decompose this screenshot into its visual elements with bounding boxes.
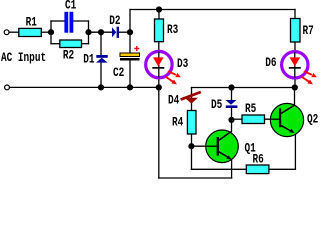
wire R4 bottom to corner [191, 134, 193, 169]
svg-text:R7: R7 [303, 25, 314, 39]
wire node A to R2 left [51, 43, 60, 45]
wire node B to D2 anode [89, 31, 113, 33]
terminal bottom [5, 85, 10, 90]
resistor R4 [187, 111, 196, 135]
wire node A vertical branch [50, 21, 52, 44]
wire R5 to Q2 base [265, 118, 279, 120]
wire corner to R6 left [192, 168, 247, 170]
node B junction [85, 29, 91, 35]
LED D3 [146, 51, 181, 84]
svg-text:R5: R5 [245, 103, 257, 117]
node A junction [48, 29, 54, 35]
transistor Q1 [205, 130, 238, 163]
C2 bottom junction [127, 84, 133, 90]
D1 top junction [98, 29, 104, 35]
wire left column down [158, 87, 160, 178]
diode D1 [96, 55, 108, 63]
svg-text:C1: C1 [65, 0, 77, 13]
node D junction [228, 117, 234, 123]
resistor R6 [246, 165, 269, 174]
wire node A to C1 left [51, 20, 65, 22]
terminal top [4, 30, 9, 35]
wire D4 branch lead [191, 88, 193, 111]
svg-text:D6: D6 [265, 57, 277, 71]
diode D2 [112, 27, 119, 38]
wire top rail [130, 9, 295, 11]
wire node B vertical branch [88, 21, 90, 44]
wire R6 right to Q2 emitter column [269, 168, 296, 170]
svg-text:R6: R6 [253, 153, 265, 167]
wire D2 cathode to node C [119, 31, 130, 33]
wire R2 right to node B [82, 43, 89, 45]
resistor R1 [19, 28, 42, 36]
wire node D to R5 [232, 118, 243, 120]
C2 plus sign [134, 46, 139, 51]
svg-text:D4: D4 [168, 95, 180, 109]
svg-text:AC Input: AC Input [1, 52, 46, 66]
svg-text:Q2: Q2 [307, 113, 319, 127]
resistor R5 [242, 115, 265, 124]
wire R3 to D3 to bottom rail [158, 42, 160, 88]
resistor R3 [155, 19, 164, 42]
svg-text:D3: D3 [177, 58, 189, 72]
wire right block top rail [192, 87, 295, 89]
svg-text:R1: R1 [26, 16, 38, 30]
svg-text:D1: D1 [83, 54, 95, 68]
wire bottom-left rail [9, 86, 159, 88]
resistor R7 [291, 19, 301, 43]
resistor R2 [60, 40, 82, 48]
D6 bottom junction [292, 84, 298, 90]
D1 bottom junction [98, 84, 104, 90]
wire bottom rail [159, 177, 232, 179]
wire C1 right to node B [73, 20, 88, 22]
wire R1 to node A [41, 31, 51, 33]
wire node C up to top rail [129, 10, 131, 33]
svg-text:R2: R2 [63, 49, 75, 63]
wire top rail down to R3 [158, 10, 160, 20]
capacitor C1 [64, 12, 73, 33]
wire R7 to D6 to rail [294, 42, 296, 88]
svg-text:C2: C2 [113, 67, 125, 81]
wire Q1 base [191, 145, 216, 147]
wire D1 bottom lead [100, 63, 102, 88]
wire D5 bottom to Q1 collector [231, 108, 233, 132]
wire C2 bottom to rail [129, 61, 131, 88]
wire top rail down to R7 [294, 10, 296, 19]
wire D1 top lead [100, 32, 102, 55]
LED D6 [282, 52, 317, 85]
svg-text:R3: R3 [167, 24, 179, 38]
R3 top junction [156, 6, 162, 12]
wire terminal1 to R1 [9, 31, 19, 33]
D3 bottom junction [156, 84, 162, 90]
capacitor C2 [120, 53, 140, 57]
svg-text:D2: D2 [109, 15, 121, 29]
D3 emission arrows [166, 71, 181, 84]
D5 top junction [228, 84, 234, 90]
wire Q2 emitter column [294, 133, 296, 169]
D6 emission arrows [302, 71, 317, 84]
Q1 base junction [188, 143, 194, 149]
diode D5 [226, 100, 238, 108]
svg-text:D5: D5 [211, 99, 223, 113]
wire Q1 emitter column [231, 160, 233, 179]
wire D5 top lead [231, 88, 233, 101]
node C junction [127, 29, 133, 35]
diode D4 [185, 98, 198, 104]
wire node C down to C2 [129, 32, 131, 53]
svg-text:R4: R4 [172, 117, 184, 131]
transistor Q2 [270, 88, 304, 137]
